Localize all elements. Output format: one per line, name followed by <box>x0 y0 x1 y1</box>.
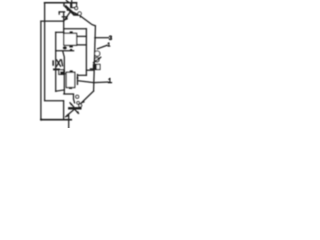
wire mid horizontal lower <box>56 50 74 52</box>
component B4 dark fill <box>60 71 63 74</box>
wire lower left link <box>56 90 65 91</box>
transistor Q1 emitter terminal circle <box>75 7 78 10</box>
wire lead to numeral 1 <box>97 45 107 49</box>
transistor Q1 emitter bar <box>74 14 78 16</box>
transistor Q2 base bar <box>69 107 80 109</box>
component M2 bottom tab <box>69 87 72 89</box>
Q1 emitter tick <box>62 16 67 18</box>
component lamp circle upper <box>95 51 100 56</box>
wire Q1 collector diagonal to bus <box>81 16 96 25</box>
component B4 contact bar <box>54 68 59 70</box>
component lamp box lower <box>93 64 100 69</box>
svg-text:1: 1 <box>107 42 110 48</box>
transistor Q1 junction dot <box>67 9 69 11</box>
wire base stub tick <box>58 12 60 14</box>
wire loop A right leg <box>63 101 65 120</box>
wire right bus <box>94 26 96 91</box>
wire M1 lower right lead <box>77 44 87 46</box>
transistor Q2 emitter right <box>75 109 79 113</box>
wire Q2 emitter to bottom <box>68 114 70 128</box>
wire top supply <box>45 2 77 4</box>
wire to Q2 collector <box>64 94 75 103</box>
Q2 collector arrowhead <box>70 103 73 106</box>
component lamp box dark fill <box>94 65 97 70</box>
node on M2 right bar <box>77 77 79 79</box>
wire M1 upper right lead <box>77 35 87 37</box>
wire bottom return <box>41 119 71 121</box>
wire M2 lead to numeral 2 <box>78 81 108 83</box>
wire right mid vertical <box>85 29 87 76</box>
label bar glyph <box>52 60 54 66</box>
transistor Q1 emitter arrowhead <box>64 16 68 21</box>
Q1 collector arrowhead <box>79 15 82 18</box>
component M2 relay coil box <box>66 72 75 87</box>
component B4 box <box>59 70 64 75</box>
wire drop to lower section <box>63 51 65 93</box>
Q2 emitter arrowhead <box>65 114 69 117</box>
component M1 top tab <box>70 31 73 33</box>
arrow tick above top wire <box>66 1 69 3</box>
wire mid vertical to bus <box>86 69 94 71</box>
component M1 bottom tab <box>69 45 72 47</box>
wire box lower tick <box>90 68 93 70</box>
pot wiper arrow <box>93 57 100 62</box>
wire T1 collector stub <box>71 0 73 7</box>
wire top tick <box>63 3 65 6</box>
label slash glyph <box>62 60 63 66</box>
wire B4 to vertical <box>63 70 66 72</box>
Q2 collector terminal circle <box>76 95 79 98</box>
transistor Q2 collector arrow <box>70 103 74 107</box>
label 2 <box>109 78 112 82</box>
svg-text:3: 3 <box>109 35 113 42</box>
pot arrowhead <box>98 57 101 59</box>
blob left of M1 tab <box>63 46 67 49</box>
wire loop B top <box>41 20 64 22</box>
wire lead to numeral 3 <box>95 37 109 39</box>
wire M2 to mid vertical <box>78 74 86 76</box>
wire left branch horizontal <box>56 31 64 33</box>
wire mid horizontal top <box>64 28 87 30</box>
label X glyph <box>57 60 61 67</box>
transistor Q2 emitter left <box>66 109 75 116</box>
node bottom-left corner <box>40 119 42 121</box>
component pot circle <box>95 58 99 62</box>
transistor Q1 case box <box>71 3 77 8</box>
wire Q1 base stub <box>59 11 65 13</box>
wire left outer loop B <box>40 21 42 120</box>
wire left outer loop A <box>44 3 46 101</box>
transistor Q1 base bar <box>66 7 73 14</box>
transistor Q1 base swoosh <box>70 12 77 15</box>
component M2 top tab <box>70 70 73 72</box>
transistor Q1 emitter <box>64 13 69 21</box>
wire left inner vertical <box>55 32 57 91</box>
Q2 base arrowhead <box>81 100 85 104</box>
wire loop A bottom <box>45 100 64 102</box>
wire base drop <box>63 12 65 33</box>
component M1 relay coil box <box>64 33 77 45</box>
component M2 right bar <box>77 74 78 85</box>
Q2 base circle b <box>79 104 82 107</box>
node on lower vertical <box>63 73 65 75</box>
node below M1 <box>70 49 72 51</box>
transistor Q1 collector terminal circle <box>78 12 81 15</box>
Q2 base circle <box>77 102 80 105</box>
Q2 emitter right arrowhead <box>77 111 80 114</box>
wire bus diagonal to Q2 base <box>81 91 94 103</box>
